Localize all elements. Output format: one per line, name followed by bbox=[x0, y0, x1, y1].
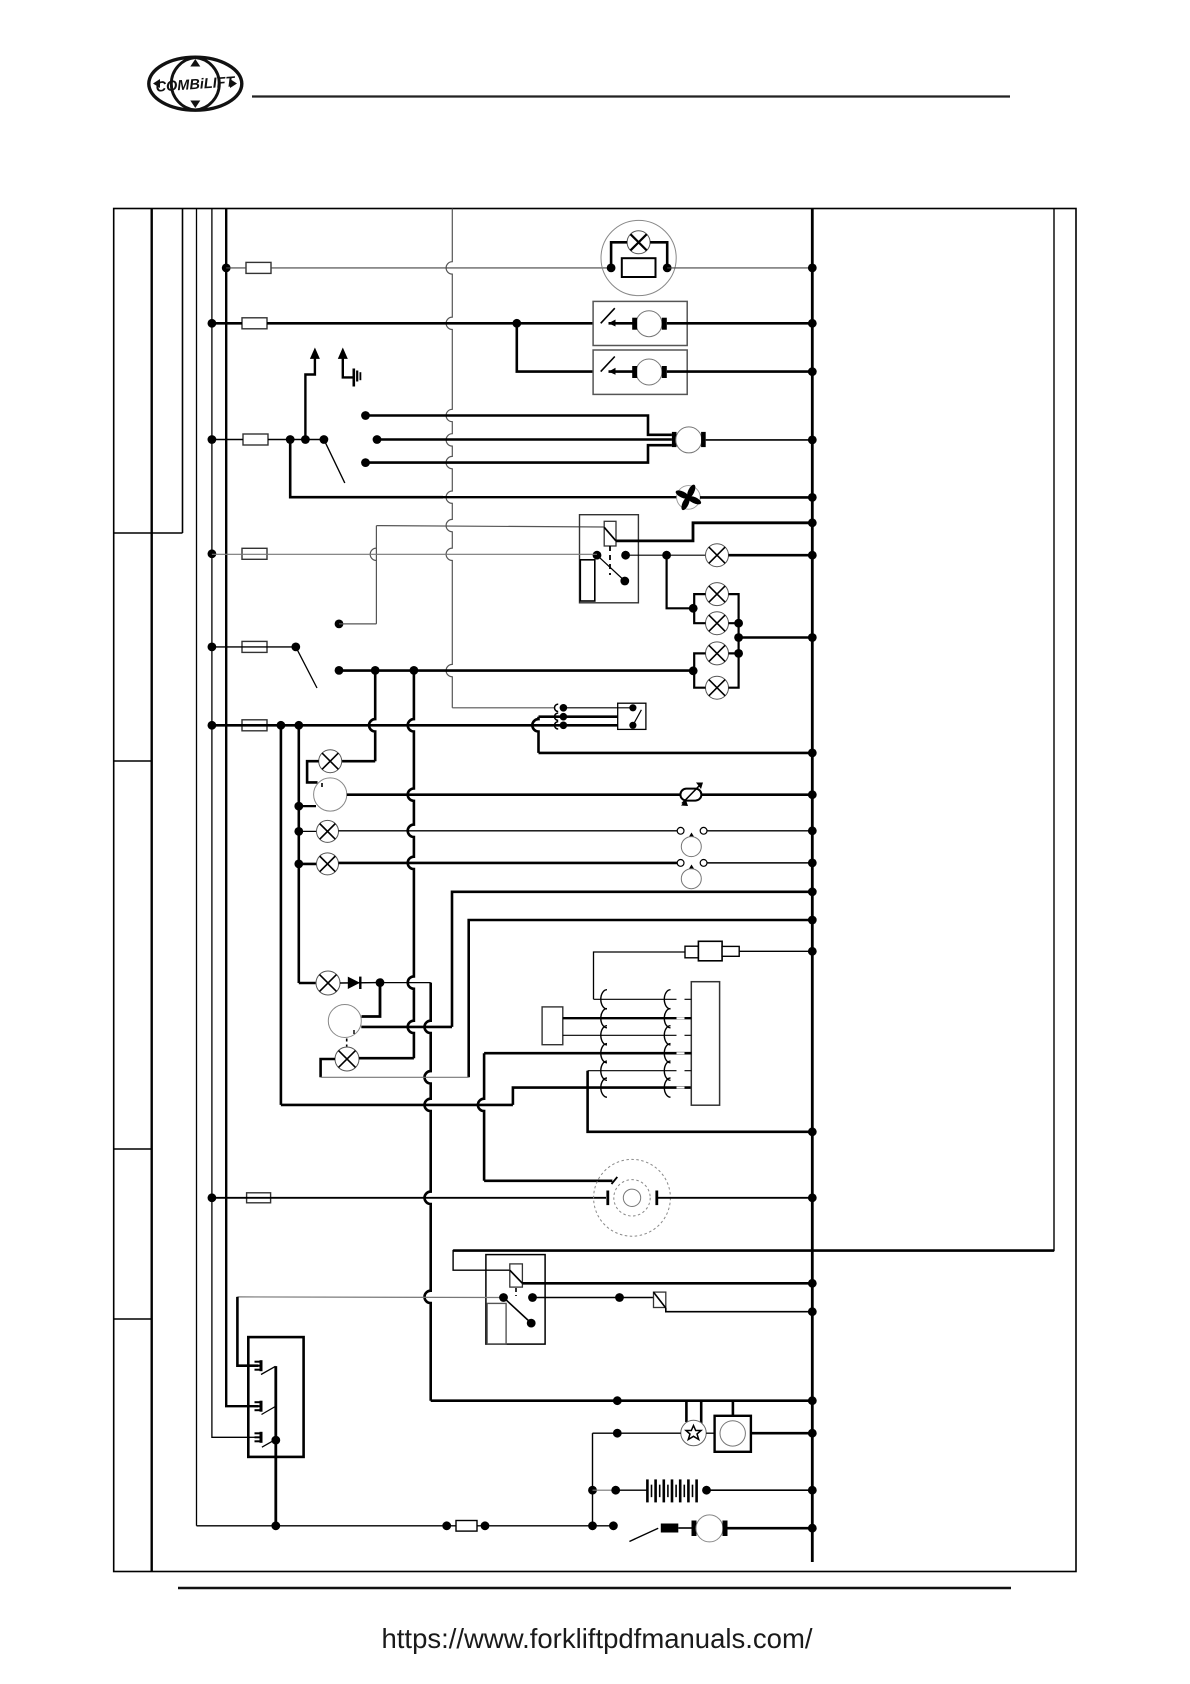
M1 motor bbox=[636, 311, 662, 337]
node 290/440 bbox=[286, 435, 295, 444]
right inner wire x1054 to relay K2 bbox=[453, 209, 1054, 1271]
sender SW2 term1 bbox=[677, 860, 684, 867]
frame divider y761 bbox=[114, 760, 152, 762]
wire bus B3 into S6 pin2 bbox=[250, 1405, 258, 1407]
wire pairs to bus bbox=[739, 636, 813, 639]
node speed3 bbox=[361, 458, 370, 467]
node bus row831 bbox=[808, 826, 817, 835]
wire row 525 to coil bbox=[376, 526, 604, 527]
row 708 pin bbox=[560, 704, 568, 712]
switch S4 blade bbox=[296, 647, 317, 688]
sender SW1 body bbox=[681, 837, 701, 857]
wire buzzer to bus bbox=[701, 793, 812, 796]
node bus row1312 bbox=[808, 1307, 817, 1316]
S6 contact2 bbox=[255, 1401, 261, 1403]
wire to K1 coil bbox=[339, 623, 376, 625]
wire row 554 bbox=[212, 553, 597, 555]
wire row 831 to bus bbox=[707, 830, 812, 832]
wire row 708 to S5 bbox=[563, 707, 633, 709]
bus B2 x212 bbox=[212, 209, 250, 1438]
wire H2 row 1027 bbox=[361, 1026, 452, 1029]
pair1 left bracket bbox=[694, 594, 705, 623]
fuse F3 bbox=[243, 434, 268, 445]
distributor terminal right bbox=[655, 1191, 658, 1206]
wire row 726 bbox=[212, 724, 618, 727]
arrow symbol up A2 bbox=[338, 348, 348, 359]
K1 blade bbox=[597, 555, 625, 581]
wire row 1400 bbox=[431, 1399, 813, 1402]
node bus row795 bbox=[808, 790, 817, 799]
relay K2 box bbox=[486, 1255, 545, 1345]
S5 top contact bbox=[629, 704, 636, 711]
frame divider y1149 bbox=[114, 1148, 152, 1150]
vertical 592 bbox=[592, 1433, 594, 1526]
spark plug wire bbox=[594, 952, 686, 999]
node 617/1400 bbox=[613, 1396, 622, 1405]
wire row 864 bbox=[339, 862, 678, 865]
winding row2 bbox=[563, 1017, 692, 1019]
distributor terminal left bbox=[606, 1191, 609, 1206]
M2 motor bbox=[636, 359, 662, 385]
sender SW1 term1 bbox=[677, 827, 684, 834]
M1 brush right bbox=[662, 318, 667, 330]
lamp L7 bbox=[706, 583, 729, 606]
lamp L2 bbox=[317, 820, 339, 842]
sender SW2 arrow bbox=[689, 865, 695, 870]
blower motor M3 terminal right bbox=[701, 432, 706, 447]
wire row 1077 grey bbox=[321, 1076, 469, 1078]
resistor R1 node a bbox=[442, 1521, 451, 1530]
node bus row951 bbox=[808, 947, 817, 956]
sender SW1 term2 bbox=[700, 827, 707, 834]
sender SW2 body bbox=[681, 869, 701, 889]
M1 switch blade bbox=[601, 308, 615, 323]
wire fan to bus bbox=[700, 496, 812, 499]
node 616/1490 bbox=[611, 1486, 620, 1495]
fuse F1 row 268 tap bbox=[222, 264, 231, 273]
header rule bbox=[252, 95, 1010, 97]
pair1 right bracket bbox=[729, 594, 739, 623]
regulator drop bbox=[732, 1401, 735, 1416]
S5 bottom contact bbox=[629, 722, 636, 729]
winding row1 bbox=[594, 998, 692, 1000]
distributor outer bbox=[594, 1159, 671, 1236]
wire 299 to horn bbox=[299, 805, 316, 807]
wire 299-lampL2 bbox=[299, 830, 317, 832]
node 339/670 bbox=[335, 666, 344, 675]
wire K2 coil to bus row1283 bbox=[522, 1282, 812, 1285]
instrument gauge U1 outer bbox=[601, 220, 676, 295]
wire speed1 row 415 bbox=[366, 416, 672, 435]
relay K2 coil bbox=[510, 1264, 523, 1287]
node bus row555 bbox=[808, 551, 817, 560]
node 375/670 bbox=[371, 666, 380, 675]
node bus row497 bbox=[808, 493, 817, 502]
node pairs tap bbox=[734, 633, 743, 642]
wire row 1433 left bbox=[593, 1432, 681, 1434]
node 667/555 bbox=[662, 551, 671, 560]
wire row 497 bbox=[290, 496, 677, 498]
diode D1 bbox=[348, 977, 360, 989]
wire row 1490 grey bbox=[593, 1489, 616, 1491]
wire row5 to bus bbox=[588, 1071, 813, 1132]
alternator drop2 bbox=[700, 1401, 703, 1424]
K2 aux rect bbox=[487, 1303, 506, 1344]
fuse F5 bbox=[242, 641, 267, 652]
M1 wire in box bbox=[609, 322, 634, 325]
wire 290 down to row 497 bbox=[290, 440, 443, 498]
step to row 1088 bbox=[513, 1088, 691, 1105]
node pair2 feed bbox=[689, 666, 698, 675]
node bus row1198 bbox=[808, 1193, 817, 1202]
S6 blade1 bbox=[261, 1366, 276, 1374]
wire row 831 bbox=[339, 830, 678, 832]
arrow A2 stem bbox=[343, 358, 353, 377]
blower motor M3 terminal left bbox=[672, 432, 677, 447]
wire M2 to bus bbox=[667, 370, 813, 373]
wire plug to bus bbox=[739, 950, 812, 952]
vertical 281 down bbox=[280, 725, 283, 1105]
fuse F4 bbox=[242, 548, 267, 559]
vertical 414 bbox=[408, 670, 414, 1058]
wire 299-lampL3 bbox=[299, 863, 317, 866]
warning star lamp bbox=[681, 1420, 706, 1445]
winding row4 bbox=[484, 1052, 691, 1055]
M2 wire in box bbox=[609, 370, 634, 373]
node battery out bbox=[702, 1486, 711, 1495]
wire row 892 path bbox=[452, 892, 812, 1027]
wire row 647 bbox=[212, 646, 296, 648]
winding arcs bbox=[601, 990, 607, 1009]
node 299/864 bbox=[294, 860, 303, 869]
node 281/726 bbox=[277, 721, 286, 730]
wire row 323 left bbox=[212, 322, 242, 325]
wire node380 to horn H2 bbox=[362, 983, 381, 1017]
vertical 237 wire bbox=[237, 1297, 258, 1366]
wire K1 to lamp L6 bbox=[626, 554, 706, 556]
coil body bbox=[691, 982, 719, 1105]
K2 blade end node bbox=[527, 1319, 536, 1328]
starter motor M5 bbox=[696, 1515, 723, 1542]
wire fuse to motor bbox=[678, 1527, 691, 1529]
pair2 right bracket bbox=[729, 653, 739, 687]
switch S3 blade bbox=[324, 440, 345, 484]
wire row 670 bbox=[339, 669, 693, 672]
starter motor M5 brush right bbox=[723, 1521, 728, 1537]
svg-text:https://www.forkliftpdfmanuals: https://www.forkliftpdfmanuals.com/ bbox=[382, 1623, 813, 1654]
node bus row1528 bbox=[808, 1524, 817, 1533]
node bus row1490 bbox=[808, 1486, 817, 1495]
frame divider y1319 bbox=[114, 1318, 152, 1320]
footer rule bbox=[178, 1587, 1011, 1589]
wire row 920 path bbox=[469, 920, 813, 1077]
node bus row920 bbox=[808, 916, 817, 925]
wire row 1490 to battery bbox=[616, 1489, 648, 1491]
Combilift logo bbox=[149, 57, 242, 110]
K1 blade end node bbox=[620, 577, 629, 586]
wire star to regulator bbox=[706, 1432, 714, 1434]
S6 contact1 bbox=[255, 1361, 261, 1363]
wire row 1105 bbox=[281, 1104, 513, 1107]
wire branch to row 371 bbox=[517, 323, 593, 371]
wire regulator to bus bbox=[751, 1432, 812, 1435]
node 324/440 bbox=[320, 435, 329, 444]
node bus row371 bbox=[808, 367, 817, 376]
wire K1 coil to bus bbox=[616, 523, 812, 541]
node 619/1297 bbox=[615, 1293, 624, 1302]
starter motor M5 brush left bbox=[692, 1521, 697, 1537]
pair2 left bracket bbox=[694, 653, 705, 687]
wire L5 left path bbox=[321, 1059, 335, 1077]
S6 blade2 bbox=[262, 1407, 276, 1415]
buzzer symbol bbox=[680, 789, 701, 801]
node 276/1526 bbox=[271, 1521, 280, 1530]
lamp L9 bbox=[706, 642, 729, 665]
wire M3 to bus bbox=[706, 439, 813, 441]
wire node624 stub bbox=[335, 620, 344, 629]
wiper motor M2 box bbox=[593, 350, 687, 394]
node 613/1526 bbox=[609, 1521, 618, 1530]
wire row 753 bbox=[539, 752, 813, 755]
wire horn row 794 bbox=[347, 793, 681, 796]
M2 brush right bbox=[662, 366, 667, 378]
wire diode to node bbox=[340, 982, 380, 984]
S6 contact3 bbox=[255, 1432, 261, 1434]
bus B4 x452 (to connector row) bbox=[446, 209, 452, 708]
node 380/982 bbox=[376, 978, 385, 987]
instrument resistor bbox=[622, 258, 656, 277]
alternator drop1 bbox=[685, 1401, 688, 1422]
K1 coil dashed link bbox=[609, 546, 611, 575]
bus B3 x226 bbox=[226, 209, 250, 1407]
S6 blade3 bbox=[262, 1440, 275, 1448]
wire row 268 left bbox=[226, 267, 246, 269]
K2 contact NO bbox=[528, 1293, 537, 1302]
node row268 left bbox=[607, 264, 616, 273]
starter fuse black bbox=[661, 1524, 679, 1533]
node bus row323 bbox=[808, 319, 817, 328]
M2 brush left bbox=[632, 366, 637, 378]
K1 contact NC bbox=[621, 551, 630, 560]
distributor mid bbox=[614, 1180, 650, 1216]
K2 blade bbox=[504, 1298, 532, 1324]
fuse F3 tap bbox=[208, 435, 217, 444]
wire 667 down to pair1 bbox=[667, 555, 694, 608]
node bus row864 bbox=[808, 859, 817, 868]
sender SW2 term2 bbox=[700, 860, 707, 867]
frame inner vertical 182 bbox=[182, 209, 184, 534]
wire 299 to lamp L4 bbox=[299, 982, 316, 985]
instrument bracket right bbox=[650, 242, 667, 268]
instrument bracket left bbox=[611, 242, 627, 268]
node 592/1490 bbox=[588, 1486, 597, 1495]
fuse F6 tap bbox=[208, 721, 217, 730]
node 414/670 bbox=[410, 666, 419, 675]
node bus row1433 bbox=[808, 1429, 817, 1438]
wire L6 to bus bbox=[729, 554, 813, 557]
wire row4 to breaker bbox=[478, 1053, 484, 1181]
wire row 1526 left bbox=[197, 1525, 614, 1527]
K2 contact common bbox=[499, 1293, 508, 1302]
fuse F6 bbox=[242, 720, 267, 731]
spark plug bbox=[685, 946, 698, 958]
distributor inner bbox=[623, 1189, 640, 1206]
fuse F2 tap bbox=[208, 319, 217, 328]
fuse F4 tap bbox=[208, 549, 217, 558]
chassis ground bar3 bbox=[359, 372, 361, 380]
node bus row1132 bbox=[808, 1127, 817, 1136]
node bus row753 bbox=[808, 749, 817, 758]
wire speed3 row 463 bbox=[366, 445, 672, 462]
wire row 717 connector arc bbox=[555, 713, 559, 720]
node bus row440 bbox=[808, 436, 817, 445]
right bus x812 bbox=[811, 209, 814, 1563]
node 305/440 bbox=[301, 435, 310, 444]
M1 brush left bbox=[632, 318, 637, 330]
resistor R1 bbox=[456, 1521, 477, 1532]
node speed2 bbox=[373, 435, 382, 444]
wire to K2 common grey bbox=[237, 1296, 503, 1299]
relay K1 coil bbox=[604, 521, 616, 546]
bus B1 x196 bbox=[196, 209, 198, 1526]
wire row 268 right bbox=[667, 267, 812, 269]
vertical 375 to lamp L1 bbox=[369, 670, 375, 761]
wire speed2 row 440 bbox=[377, 438, 672, 441]
K1 contact common bbox=[593, 551, 602, 560]
node bus row1283 bbox=[808, 1279, 817, 1288]
wire M1 to bus bbox=[667, 322, 813, 325]
relay K1 box bbox=[580, 515, 639, 603]
wire row 726 connector arc bbox=[555, 722, 559, 729]
node pair1 feed bbox=[689, 604, 698, 613]
fuse F2 bbox=[242, 318, 267, 329]
vertical 299 down bbox=[297, 725, 300, 983]
lamp L5 bbox=[335, 1047, 359, 1071]
starter switch blade bbox=[629, 1528, 658, 1541]
row 717 pin bbox=[560, 713, 568, 721]
regulator box bbox=[715, 1416, 751, 1452]
switch S5 box bbox=[618, 703, 646, 729]
node 299/831 bbox=[294, 827, 303, 836]
wire node380 to v430 bbox=[380, 982, 431, 984]
arrow A1 stem bbox=[305, 358, 315, 440]
node 617/1433 bbox=[613, 1429, 622, 1438]
row 726 pin bbox=[560, 722, 568, 730]
frame divider y533 bbox=[114, 532, 183, 534]
fuse F7 tap bbox=[208, 1193, 217, 1202]
fuse F7 bbox=[247, 1193, 271, 1203]
node bus row892 bbox=[808, 887, 817, 896]
wire row 268 bbox=[271, 267, 611, 269]
breaker blade bbox=[612, 1177, 618, 1184]
ignition switch box bbox=[248, 1337, 303, 1457]
winding row5 bbox=[588, 1070, 692, 1072]
wire row 440 mid bbox=[268, 439, 324, 441]
lamp L8 bbox=[706, 612, 729, 635]
chassis ground bar1 bbox=[352, 369, 355, 387]
wire row 1251 bbox=[453, 1249, 1054, 1252]
wire distributor to bus bbox=[657, 1197, 813, 1199]
M2 arrow bbox=[609, 368, 616, 375]
node row268 right bbox=[663, 264, 672, 273]
horn H2 bbox=[328, 1005, 361, 1038]
instrument lamp bbox=[627, 231, 650, 254]
node bus row1400 bbox=[808, 1396, 817, 1405]
connector X1 bbox=[542, 1007, 563, 1045]
wire solenoid to bus bbox=[666, 1308, 813, 1312]
node bus row637 bbox=[808, 633, 817, 642]
wire row 1198 bbox=[212, 1197, 606, 1199]
wire bus B2 into S6 pin3 bbox=[250, 1436, 258, 1438]
wire row 323 bbox=[267, 322, 593, 325]
node pair1 right bbox=[734, 619, 743, 628]
node branch x517 bbox=[512, 319, 521, 328]
lamp L1 bbox=[319, 750, 342, 773]
wire row 708 connector arc bbox=[555, 704, 559, 711]
H2 dashed stub bbox=[346, 1039, 348, 1047]
node 296/647 bbox=[291, 643, 300, 652]
node pair2 right bbox=[734, 649, 743, 658]
node speed1 bbox=[361, 411, 370, 420]
lamp L10 bbox=[706, 676, 729, 699]
wire L1 to horn bbox=[307, 761, 319, 782]
wire row 440 left bbox=[212, 439, 243, 441]
battery G1 bbox=[646, 1479, 649, 1502]
node bus row523 bbox=[808, 518, 817, 527]
K1 aux rect bbox=[580, 560, 595, 601]
node 299/726 bbox=[294, 721, 303, 730]
fuse F1 bbox=[246, 262, 271, 273]
regulator inner circle bbox=[720, 1421, 745, 1446]
M2 switch blade bbox=[601, 357, 615, 372]
solenoid Y1 bbox=[654, 1292, 666, 1307]
arrow symbol up A1 bbox=[310, 348, 320, 359]
S6 common vertical bbox=[274, 1366, 277, 1526]
fuse F5 tap bbox=[208, 643, 217, 652]
wire row 864 to bus bbox=[707, 862, 812, 864]
lamps common vertical bbox=[737, 623, 739, 653]
wire L5 right bbox=[359, 1057, 414, 1060]
wire K2 NO to solenoid bbox=[533, 1297, 654, 1299]
sender SW1 arrow bbox=[689, 833, 695, 838]
frame border bbox=[114, 209, 1076, 1572]
horn H1 bbox=[314, 778, 347, 811]
wire row 717 from S5 path bbox=[539, 715, 618, 718]
fan M4 bbox=[677, 486, 701, 510]
wiper motor M1 box bbox=[593, 301, 687, 345]
M1 arrow bbox=[609, 320, 616, 327]
wire M5 to bus bbox=[728, 1527, 813, 1530]
lamp L6 bbox=[706, 544, 729, 567]
node bus row268 bbox=[808, 264, 817, 273]
wire battery to bus bbox=[707, 1489, 813, 1491]
frame inner vertical left bbox=[150, 209, 152, 1572]
K2 coil dashed link bbox=[515, 1288, 517, 1296]
lamp L4 bbox=[316, 971, 340, 995]
S6 blade3 node bbox=[271, 1436, 280, 1445]
chassis ground bar2 bbox=[356, 371, 358, 382]
winding row3 bbox=[563, 1034, 692, 1036]
resistor R1 node b bbox=[481, 1521, 490, 1530]
blower motor M3 bbox=[676, 427, 702, 453]
lamp L3 bbox=[317, 853, 339, 875]
S5 blade bbox=[633, 710, 642, 726]
node 299/806 bbox=[294, 802, 303, 811]
vertical 430 down bbox=[425, 983, 431, 1401]
node 592/1526 bbox=[588, 1521, 597, 1530]
